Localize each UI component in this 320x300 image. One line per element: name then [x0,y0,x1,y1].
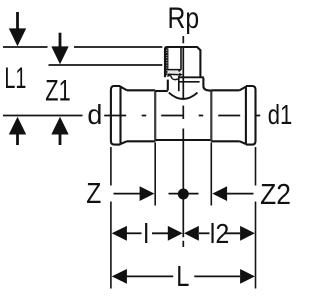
svg-text:Rp: Rp [168,1,200,35]
dimension l2 arrows [184,226,255,241]
branch opening arc [169,93,198,99]
extension line right face (x=255.5) [255,147,257,289]
branch shoulder line [179,76,204,78]
run tube top edge left of branch [155,90,168,92]
label l2 [210,218,230,250]
label Z2 [260,178,291,210]
right socket step [210,90,212,142]
node marker dot on branch axis [169,189,199,200]
svg-text:Z: Z [86,177,101,209]
label d [87,98,102,130]
svg-text:l: l [143,218,149,250]
centerline branch axis dash-dot [182,36,184,139]
section cut edge lower [178,76,180,91]
centerline run axis dash-dot [104,115,262,117]
right socket cone [239,87,246,144]
dimension L arrows [112,269,255,284]
run tube bottom edge [155,139,211,141]
section break squiggle [167,75,178,79]
svg-text:L1: L1 [4,62,26,95]
svg-text:L: L [176,260,189,293]
right socket outline [211,90,239,141]
arrow L1 bottom [9,117,26,145]
label d1 [268,100,292,131]
branch boss outline [165,47,200,77]
section cut edge upper [179,48,181,72]
svg-text:d: d [87,98,102,130]
dimension Z arrow [114,186,155,201]
branch axis extension below fitting [182,141,184,247]
right bead inner edge [245,86,247,145]
left socket outline [127,90,155,141]
svg-text:Z2: Z2 [260,178,291,210]
label L1 [4,62,26,95]
branch inner shoulder line [179,81,200,83]
svg-text:Z1: Z1 [45,73,70,107]
branch collar right edge with fillet [203,78,211,91]
extension line L1 top (y=47) [3,46,162,48]
left bead inner edge [119,86,121,145]
extension line left face (x=110.9) [110,147,112,289]
svg-text:d1: d1 [268,100,292,131]
branch collar cut edge left [167,80,169,91]
thread minor line [167,49,169,70]
arrow Z1 top [51,33,68,64]
label l [143,218,149,250]
fitting body: right press bead [246,86,256,145]
label Z1 [45,73,70,107]
thread relief lip slab [168,70,183,74]
left socket cone [121,87,128,144]
reference line run axis left (y=115.5) [3,115,83,117]
extension line Z1 top (y=65) [49,64,163,66]
arrow L1 top [9,12,26,46]
extension line right socket step (x=211.3) [210,143,212,206]
label Rp [168,1,200,35]
thread relief pennant tip [179,73,183,77]
label Z [86,177,101,209]
thread teeth [166,49,168,74]
arrow Z1 bottom [51,117,68,145]
label L [176,260,189,293]
left socket step [154,90,156,142]
dimension l arrows [112,226,183,241]
fitting body: left press bead [111,86,121,145]
extension line left socket step (x=155.2) [154,143,156,206]
dimension Z2 arrow [212,186,253,201]
